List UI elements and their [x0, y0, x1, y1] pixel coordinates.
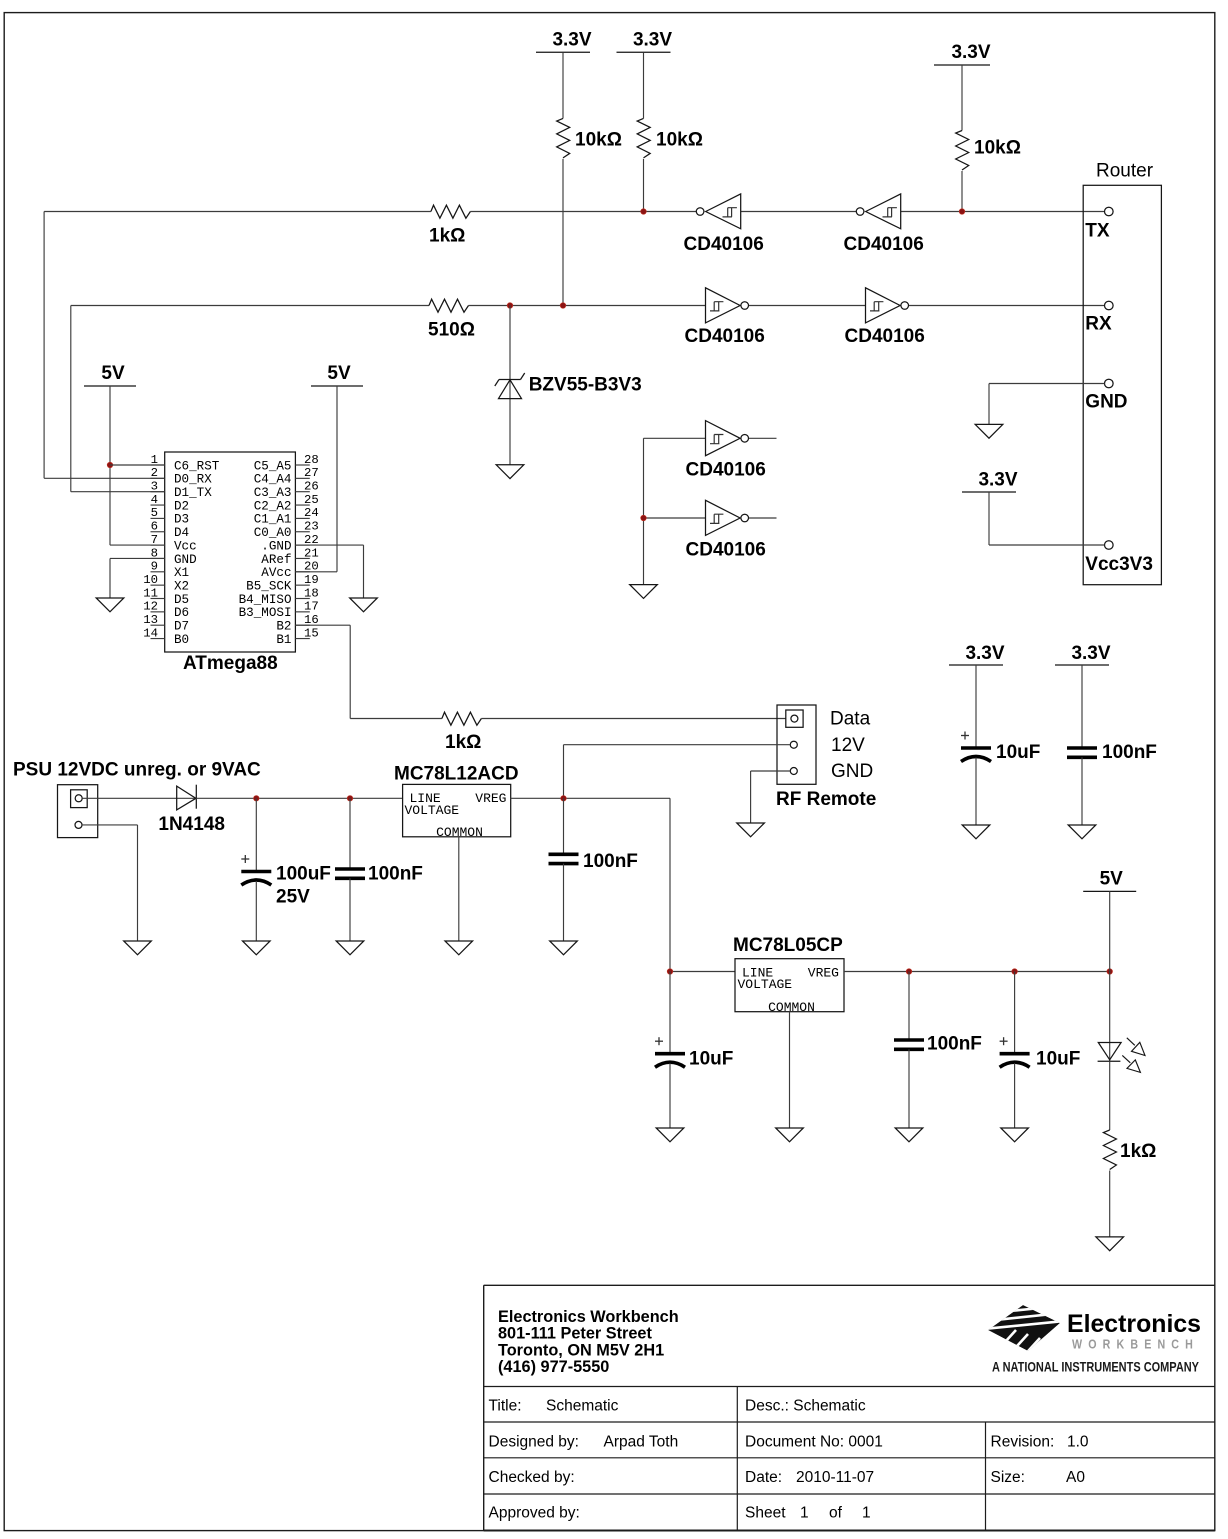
svg-text:Checked by:: Checked by:: [489, 1469, 575, 1486]
svg-text:C3_A3: C3_A3: [254, 486, 292, 500]
svg-text:C4_A4: C4_A4: [254, 473, 292, 487]
svg-text:MC78L12ACD: MC78L12ACD: [394, 764, 519, 785]
svg-text:1kΩ: 1kΩ: [1120, 1141, 1156, 1162]
svg-text:2: 2: [151, 466, 158, 480]
svg-text:1kΩ: 1kΩ: [429, 226, 465, 247]
svg-text:B0: B0: [174, 633, 189, 647]
svg-text:X1: X1: [174, 566, 189, 580]
svg-text:B3_MOSI: B3_MOSI: [239, 606, 292, 620]
svg-text:B1: B1: [276, 633, 291, 647]
svg-text:11: 11: [143, 586, 158, 600]
svg-text:ATmega88: ATmega88: [183, 653, 278, 674]
svg-text:GND: GND: [1085, 392, 1127, 413]
svg-text:100nF: 100nF: [368, 864, 423, 885]
svg-text:25V: 25V: [276, 887, 310, 908]
svg-text:D2: D2: [174, 499, 189, 513]
svg-text:5V: 5V: [1100, 869, 1124, 890]
svg-text:WORKBENCH: WORKBENCH: [1072, 1338, 1199, 1352]
svg-text:Document No: 0001: Document No: 0001: [745, 1434, 883, 1451]
svg-text:COMMON: COMMON: [436, 825, 483, 840]
svg-text:(416) 977-5550: (416) 977-5550: [498, 1358, 609, 1376]
svg-text:B4_MISO: B4_MISO: [239, 593, 292, 607]
svg-text:5V: 5V: [327, 363, 351, 384]
svg-text:28: 28: [304, 453, 319, 467]
svg-text:19: 19: [304, 573, 319, 587]
svg-text:27: 27: [304, 466, 319, 480]
svg-text:Sheet: Sheet: [745, 1505, 786, 1522]
svg-text:C6_RST: C6_RST: [174, 459, 220, 473]
svg-text:Size:: Size:: [991, 1469, 1025, 1486]
svg-text:CD40106: CD40106: [686, 540, 766, 561]
svg-text:VREG: VREG: [475, 791, 506, 806]
svg-text:MC78L05CP: MC78L05CP: [733, 935, 843, 956]
svg-text:CD40106: CD40106: [844, 234, 924, 255]
svg-text:17: 17: [304, 600, 319, 614]
svg-text:3.3V: 3.3V: [1071, 643, 1110, 664]
svg-text:B5_SCK: B5_SCK: [246, 579, 292, 593]
svg-text:10kΩ: 10kΩ: [656, 130, 703, 151]
svg-text:6: 6: [151, 520, 158, 534]
svg-text:C2_A2: C2_A2: [254, 499, 292, 513]
svg-text:AVcc: AVcc: [261, 566, 291, 580]
svg-text:Title:: Title:: [489, 1398, 522, 1415]
svg-text:24: 24: [304, 506, 319, 520]
svg-text:3: 3: [151, 480, 158, 494]
svg-text:100nF: 100nF: [583, 851, 638, 872]
svg-text:D3: D3: [174, 513, 189, 527]
svg-text:14: 14: [143, 626, 158, 640]
svg-text:Approved by:: Approved by:: [489, 1505, 580, 1522]
svg-text:TX: TX: [1085, 221, 1110, 242]
svg-text:1: 1: [800, 1505, 809, 1522]
svg-text:3.3V: 3.3V: [965, 643, 1004, 664]
svg-text:26: 26: [304, 480, 319, 494]
svg-text:Vcc: Vcc: [174, 539, 197, 553]
svg-text:VREG: VREG: [808, 965, 839, 980]
svg-text:A NATIONAL INSTRUMENTS COMPANY: A NATIONAL INSTRUMENTS COMPANY: [992, 1359, 1200, 1375]
svg-text:Data: Data: [830, 709, 871, 730]
svg-text:C1_A1: C1_A1: [254, 513, 292, 527]
svg-text:Arpad Toth: Arpad Toth: [604, 1434, 679, 1451]
svg-text:12: 12: [143, 600, 158, 614]
svg-text:18: 18: [304, 586, 319, 600]
svg-text:Desc.: Schematic: Desc.: Schematic: [745, 1398, 866, 1415]
svg-text:10kΩ: 10kΩ: [974, 138, 1021, 159]
svg-text:3.3V: 3.3V: [552, 29, 591, 50]
svg-text:13: 13: [143, 613, 158, 627]
svg-text:3.3V: 3.3V: [978, 470, 1017, 491]
svg-text:A0: A0: [1066, 1469, 1085, 1486]
svg-text:D1_TX: D1_TX: [174, 486, 212, 500]
svg-text:D4: D4: [174, 526, 189, 540]
svg-text:15: 15: [304, 626, 319, 640]
svg-text:D0_RX: D0_RX: [174, 473, 212, 487]
svg-text:4: 4: [151, 493, 158, 507]
svg-text:100nF: 100nF: [1102, 742, 1157, 763]
svg-text:ARef: ARef: [261, 553, 291, 567]
svg-text:PSU 12VDC unreg. or 9VAC: PSU 12VDC unreg. or 9VAC: [13, 760, 261, 781]
svg-text:801-111 Peter Street: 801-111 Peter Street: [498, 1325, 652, 1343]
svg-text:X2: X2: [174, 579, 189, 593]
svg-text:Router: Router: [1096, 161, 1154, 182]
svg-text:9: 9: [151, 560, 158, 574]
svg-text:D5: D5: [174, 593, 189, 607]
svg-text:10: 10: [143, 573, 158, 587]
svg-text:2010-11-07: 2010-11-07: [796, 1469, 874, 1486]
svg-text:CD40106: CD40106: [686, 460, 766, 481]
svg-text:Revision:: Revision:: [991, 1434, 1055, 1451]
svg-text:1N4148: 1N4148: [158, 814, 225, 835]
svg-text:21: 21: [304, 546, 319, 560]
svg-text:GND: GND: [174, 553, 197, 567]
svg-text:3.3V: 3.3V: [633, 29, 672, 50]
svg-text:.GND: .GND: [261, 539, 291, 553]
svg-text:GND: GND: [831, 761, 873, 782]
svg-text:COMMON: COMMON: [768, 1000, 815, 1015]
svg-text:10uF: 10uF: [996, 742, 1040, 763]
svg-text:5V: 5V: [101, 363, 125, 384]
svg-text:Vcc3V3: Vcc3V3: [1085, 554, 1153, 575]
svg-text:CD40106: CD40106: [845, 326, 925, 347]
svg-text:CD40106: CD40106: [684, 234, 764, 255]
svg-text:VOLTAGE: VOLTAGE: [738, 977, 793, 992]
svg-text:Electronics: Electronics: [1067, 1310, 1201, 1338]
svg-text:10uF: 10uF: [1036, 1049, 1080, 1070]
svg-text:Date:: Date:: [745, 1469, 782, 1486]
svg-text:B2: B2: [276, 620, 291, 634]
svg-text:10uF: 10uF: [689, 1049, 733, 1070]
svg-text:Electronics Workbench: Electronics Workbench: [498, 1308, 679, 1326]
svg-text:510Ω: 510Ω: [428, 320, 475, 341]
svg-text:Schematic: Schematic: [546, 1398, 619, 1415]
svg-text:D6: D6: [174, 606, 189, 620]
svg-text:12V: 12V: [831, 735, 865, 756]
svg-text:1: 1: [862, 1505, 871, 1522]
svg-text:VOLTAGE: VOLTAGE: [405, 803, 460, 818]
svg-text:5: 5: [151, 506, 158, 520]
svg-text:25: 25: [304, 493, 319, 507]
svg-text:1kΩ: 1kΩ: [445, 732, 481, 753]
svg-text:RX: RX: [1085, 314, 1112, 335]
svg-text:1.0: 1.0: [1067, 1434, 1089, 1451]
svg-text:Toronto, ON M5V 2H1: Toronto, ON M5V 2H1: [498, 1341, 664, 1359]
svg-text:100uF: 100uF: [276, 864, 331, 885]
svg-text:CD40106: CD40106: [685, 326, 765, 347]
svg-text:100nF: 100nF: [927, 1034, 982, 1055]
svg-text:23: 23: [304, 520, 319, 534]
svg-text:BZV55-B3V3: BZV55-B3V3: [529, 375, 642, 396]
svg-text:Designed by:: Designed by:: [489, 1434, 579, 1451]
svg-text:RF Remote: RF Remote: [776, 789, 876, 810]
svg-text:of: of: [829, 1505, 843, 1522]
svg-text:C0_A0: C0_A0: [254, 526, 292, 540]
svg-text:D7: D7: [174, 620, 189, 634]
svg-text:3.3V: 3.3V: [951, 42, 990, 63]
svg-text:C5_A5: C5_A5: [254, 459, 292, 473]
svg-text:10kΩ: 10kΩ: [575, 130, 622, 151]
